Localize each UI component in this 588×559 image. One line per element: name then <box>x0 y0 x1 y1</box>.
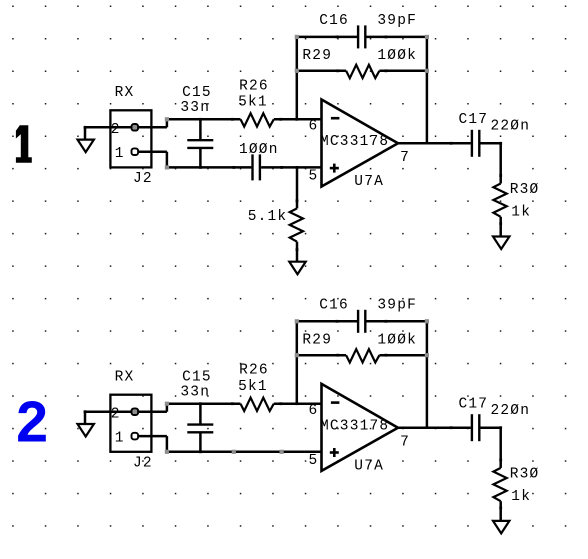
svg-text:MC33178: MC33178 <box>320 419 389 435</box>
svg-text:J2: J2 <box>133 455 153 471</box>
svg-text:RX: RX <box>115 85 135 101</box>
svg-text:33n: 33n <box>180 100 210 116</box>
svg-text:1: 1 <box>115 146 125 162</box>
svg-text:C15: C15 <box>182 85 212 101</box>
svg-text:5k1: 5k1 <box>238 379 268 395</box>
svg-text:R26: R26 <box>239 78 269 94</box>
svg-text:C17: C17 <box>459 396 489 412</box>
svg-text:C17: C17 <box>459 112 489 128</box>
svg-text:R3Ø: R3Ø <box>510 182 540 198</box>
svg-text:2: 2 <box>15 392 50 460</box>
svg-text:U7A: U7A <box>354 174 384 190</box>
svg-text:5: 5 <box>309 168 319 184</box>
svg-text:1ØØn: 1ØØn <box>239 142 279 158</box>
svg-text:39pF: 39pF <box>377 13 417 29</box>
svg-text:1: 1 <box>115 430 125 446</box>
svg-text:7: 7 <box>400 434 410 450</box>
svg-text:R26: R26 <box>239 363 269 379</box>
svg-text:2: 2 <box>111 406 121 422</box>
svg-text:C16: C16 <box>319 297 349 313</box>
svg-text:1k: 1k <box>511 489 531 505</box>
svg-text:39pF: 39pF <box>377 297 417 313</box>
svg-text:1ØØk: 1ØØk <box>377 332 417 348</box>
svg-text:C15: C15 <box>182 369 212 385</box>
svg-text:1ØØk: 1ØØk <box>377 48 417 64</box>
svg-text:MC33178: MC33178 <box>320 134 389 150</box>
svg-text:5k1: 5k1 <box>238 95 268 111</box>
svg-text:R29: R29 <box>302 48 332 64</box>
svg-text:1k: 1k <box>511 205 531 221</box>
svg-text:6: 6 <box>309 119 319 135</box>
svg-text:C16: C16 <box>319 13 349 29</box>
svg-text:2: 2 <box>111 122 121 138</box>
svg-text:5.1k: 5.1k <box>248 209 288 225</box>
svg-text:R29: R29 <box>302 332 332 348</box>
svg-text:6: 6 <box>309 403 319 419</box>
svg-text:R3Ø: R3Ø <box>510 466 540 482</box>
svg-text:7: 7 <box>400 150 410 166</box>
svg-text:33n: 33n <box>180 384 210 400</box>
svg-text:22Øn: 22Øn <box>491 119 531 135</box>
svg-text:J2: J2 <box>133 171 153 187</box>
svg-text:22Øn: 22Øn <box>491 403 531 419</box>
svg-text:5: 5 <box>309 453 319 469</box>
svg-text:U7A: U7A <box>354 458 384 474</box>
svg-text:RX: RX <box>115 369 135 385</box>
